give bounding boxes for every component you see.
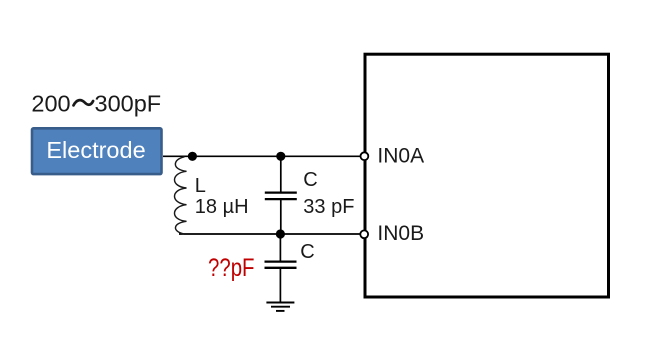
capacitor C2 plates (?? pF) — [265, 262, 297, 268]
pin IN0A terminal circle — [361, 152, 369, 160]
IC U1 body — [365, 54, 609, 297]
capacitor C2 bottom lead wire — [279, 268, 281, 302]
svg-text:300pF: 300pF — [95, 91, 162, 117]
node junction dot bottom wire / C1 / C2 — [276, 229, 285, 238]
capacitor C1 bottom lead wire — [280, 200, 282, 235]
svg-text:L: L — [195, 175, 206, 197]
ground symbol — [266, 303, 294, 311]
inductor L1 coil — [175, 157, 187, 234]
node junction dot top wire / C1 — [276, 152, 285, 161]
node junction dot at inductor top — [188, 152, 197, 161]
svg-text:18 µH: 18 µH — [195, 196, 249, 218]
svg-text:IN0A: IN0A — [377, 145, 424, 168]
label 200~300pF (electrode capacitance range) — [31, 91, 161, 117]
pin IN0B terminal circle — [360, 230, 368, 238]
wire bottom horizontal (L bottom to IN0B) — [179, 233, 360, 235]
electrode block — [32, 128, 162, 174]
capacitor C2 top lead wire — [279, 234, 281, 261]
wire electrode to IN0A (top horizontal) — [163, 155, 360, 157]
svg-text:IN0B: IN0B — [377, 222, 424, 245]
svg-text:33 pF: 33 pF — [303, 196, 354, 218]
capacitor C1 top lead wire — [280, 156, 282, 192]
svg-text:C: C — [300, 241, 314, 263]
capacitor C1 plates (33 pF) — [265, 193, 297, 200]
svg-text:Electrode: Electrode — [46, 137, 145, 163]
svg-text:200: 200 — [31, 91, 70, 117]
svg-text:C: C — [303, 169, 317, 191]
svg-text:??pF: ??pF — [208, 254, 255, 282]
